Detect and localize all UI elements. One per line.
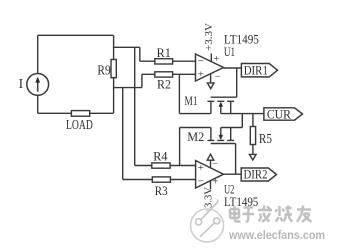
svg-text:DIR1: DIR1	[244, 62, 268, 77]
发	[258, 206, 272, 222]
svg-text:R2: R2	[157, 77, 171, 92]
ground below U1	[207, 83, 214, 89]
mosfet M1	[208, 97, 237, 113]
svg-text:DIR2: DIR2	[244, 167, 268, 182]
resistor R4	[152, 163, 170, 168]
svg-text:+: +	[213, 177, 219, 188]
wire U2 output to DIR2	[224, 173, 242, 175]
svg-text:R1: R1	[157, 45, 172, 60]
op-amp U1	[196, 54, 224, 83]
ground above U2	[207, 154, 214, 160]
resistor R1	[155, 59, 173, 64]
wire M2 source	[221, 127, 243, 129]
svg-text:+: +	[198, 69, 204, 81]
友	[297, 206, 312, 222]
wire U1 output to DIR1	[224, 67, 242, 69]
wire M2 gate to U2 output	[235, 144, 237, 175]
wire M2 drain / U2 feedback	[180, 128, 211, 166]
resistor R9	[111, 60, 116, 78]
wire node T down to R4	[135, 47, 152, 165]
wire U1 output to M1 gate	[236, 68, 238, 97]
svg-text:M2: M2	[187, 129, 204, 144]
svg-text:−: −	[198, 55, 204, 67]
svg-text:R9: R9	[97, 64, 110, 79]
resistor R2	[155, 72, 173, 77]
resistor R3	[152, 177, 170, 182]
flag CUR	[264, 108, 303, 120]
svg-text:R3: R3	[155, 183, 168, 198]
wire U1 feedback to + input	[179, 74, 211, 113]
svg-text:+3.3V: +3.3V	[203, 23, 215, 51]
flag DIR2	[241, 168, 276, 181]
svg-text:+: +	[214, 54, 220, 65]
wire R4 to U2	[170, 165, 196, 167]
wire loop top	[38, 34, 114, 36]
svg-text:+: +	[198, 162, 204, 174]
电	[230, 206, 241, 222]
svg-text:R4: R4	[153, 148, 168, 163]
子	[243, 208, 255, 222]
wire node B down to R3	[123, 88, 153, 180]
wire U2 power stub	[210, 181, 212, 190]
wire loop right / R9 feed	[113, 35, 115, 113]
watermark logo circle	[191, 200, 224, 243]
watermark text 电子发烧友	[230, 206, 312, 222]
svg-text:R5: R5	[259, 132, 272, 147]
flag DIR1	[241, 64, 277, 77]
wire M1 source node to CUR	[221, 113, 264, 115]
svg-text:−: −	[215, 72, 221, 83]
ground below R5	[249, 154, 256, 160]
svg-text:−: −	[198, 175, 204, 187]
wire R5 to ground	[252, 145, 254, 155]
svg-text:LOAD: LOAD	[66, 118, 93, 133]
wire M1 node to M2 node	[241, 114, 243, 128]
svg-text:I: I	[19, 76, 24, 91]
wire loop bottom	[38, 112, 114, 114]
svg-text:M1: M1	[185, 93, 198, 108]
resistor R5	[250, 127, 255, 145]
wire U1 power stub	[210, 54, 212, 62]
svg-text:LT1495: LT1495	[224, 194, 258, 209]
resistor LOAD	[71, 111, 89, 117]
op-amp U2	[196, 158, 224, 188]
wire node to R5	[252, 114, 254, 127]
current source I	[27, 74, 49, 96]
mosfet M2	[208, 128, 236, 144]
wire loop left	[37, 35, 39, 113]
wire node T to R1	[114, 47, 155, 61]
svg-text:www.elecfans.com: www.elecfans.com	[228, 230, 325, 242]
svg-text:U1: U1	[224, 44, 235, 59]
wire U2 ground stub	[210, 160, 212, 167]
wire R1 to U1	[173, 60, 196, 62]
wire R3 to U2	[170, 179, 195, 181]
svg-text:CUR: CUR	[267, 106, 291, 121]
wire U1 ground stub	[210, 74, 212, 83]
wire R2 to U1	[173, 73, 196, 75]
烧	[276, 206, 293, 222]
wire node B to R2	[114, 74, 155, 87]
